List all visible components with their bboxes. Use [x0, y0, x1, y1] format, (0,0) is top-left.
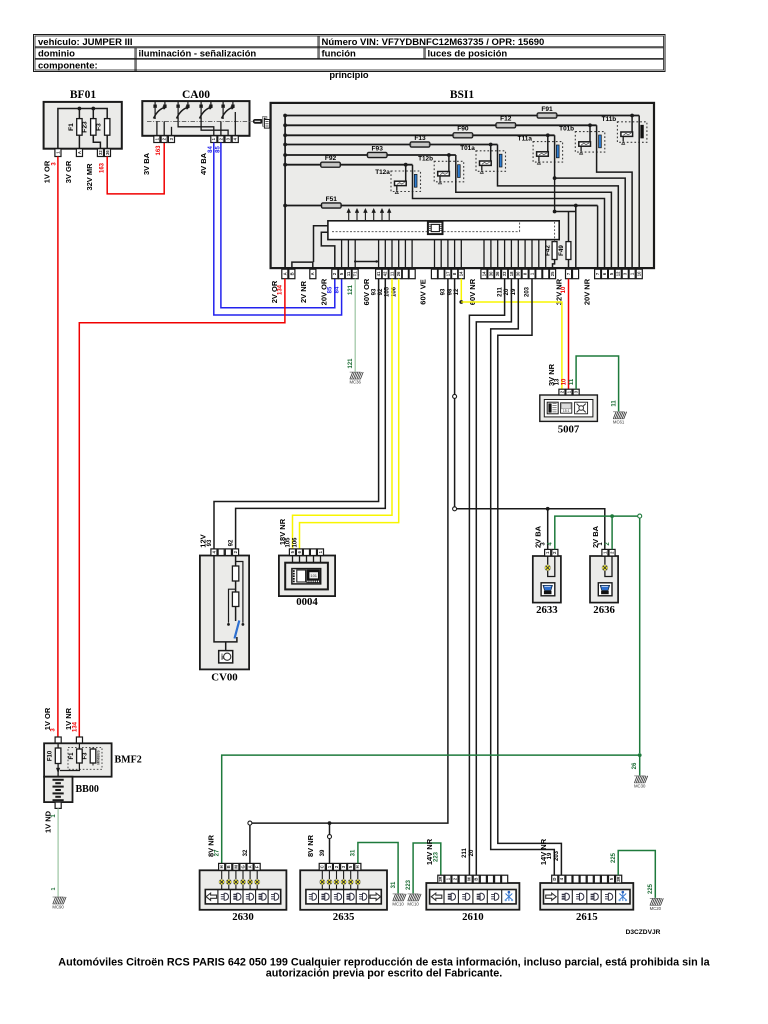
svg-text:163: 163: [100, 162, 106, 173]
svg-text:1: 1: [51, 887, 57, 890]
svg-text:10: 10: [637, 271, 642, 276]
svg-text:T11a: T11a: [518, 136, 533, 143]
svg-text:18: 18: [509, 271, 514, 276]
svg-text:105: 105: [285, 537, 291, 548]
svg-text:14: 14: [459, 271, 464, 276]
svg-text:60V NR: 60V NR: [468, 278, 477, 305]
svg-text:F1: F1: [69, 752, 75, 760]
svg-text:M: M: [467, 877, 472, 881]
svg-text:2630: 2630: [232, 911, 254, 923]
svg-text:101: 101: [310, 573, 317, 578]
svg-text:60V OR: 60V OR: [362, 278, 371, 305]
svg-text:1V NR: 1V NR: [64, 707, 73, 730]
svg-text:26: 26: [396, 271, 401, 276]
svg-text:3R: 3R: [616, 876, 621, 881]
svg-text:30: 30: [488, 271, 493, 276]
svg-text:T12a: T12a: [375, 169, 390, 176]
svg-text:3V GR: 3V GR: [64, 160, 73, 183]
svg-text:12: 12: [616, 271, 621, 276]
svg-text:B: B: [226, 865, 231, 868]
svg-text:42: 42: [383, 271, 388, 276]
svg-text:223: 223: [434, 851, 440, 862]
svg-text:BMF2: BMF2: [115, 755, 142, 766]
svg-text:93: 93: [371, 288, 377, 295]
svg-text:225: 225: [648, 883, 654, 894]
svg-text:T1: T1: [353, 271, 358, 277]
svg-text:T01a: T01a: [460, 145, 475, 152]
svg-text:26: 26: [632, 762, 638, 769]
svg-text:Número VIN: VF7YDBNFC12M63735: Número VIN: VF7YDBNFC12M63735 / OPR: 156…: [322, 37, 545, 48]
svg-text:39: 39: [320, 849, 326, 856]
svg-text:3R: 3R: [438, 876, 443, 881]
svg-text:92: 92: [228, 539, 234, 546]
svg-text:36: 36: [495, 271, 500, 276]
svg-text:13: 13: [555, 378, 561, 385]
svg-text:principio: principio: [329, 70, 369, 80]
svg-text:11: 11: [611, 400, 617, 407]
svg-text:11: 11: [346, 271, 351, 276]
svg-text:F13: F13: [414, 135, 426, 142]
svg-text:31: 31: [391, 881, 397, 888]
svg-text:F91: F91: [541, 106, 553, 113]
svg-text:33: 33: [502, 271, 507, 276]
svg-text:D: D: [552, 878, 557, 881]
svg-text:2633: 2633: [536, 604, 558, 616]
svg-text:MC30: MC30: [634, 784, 646, 789]
svg-text:121: 121: [348, 358, 354, 369]
svg-text:2615: 2615: [576, 911, 598, 923]
svg-text:F10: F10: [48, 750, 54, 761]
svg-text:20V NR: 20V NR: [582, 278, 591, 305]
svg-text:203: 203: [525, 286, 531, 297]
svg-text:F23: F23: [82, 121, 89, 133]
svg-text:134: 134: [73, 721, 79, 732]
svg-text:121: 121: [348, 284, 354, 295]
svg-text:A: A: [282, 272, 287, 275]
svg-text:vehículo: JUMPER III: vehículo: JUMPER III: [38, 37, 133, 48]
svg-text:componente:: componente:: [38, 61, 98, 72]
svg-text:A: A: [77, 151, 82, 154]
svg-text:F3: F3: [83, 752, 89, 760]
svg-text:5007: 5007: [558, 424, 580, 436]
svg-text:1V OR: 1V OR: [43, 707, 52, 730]
svg-text:85: 85: [328, 286, 334, 293]
svg-text:2610: 2610: [462, 911, 484, 923]
svg-text:MC10: MC10: [407, 902, 419, 907]
svg-text:F92: F92: [325, 155, 337, 162]
svg-text:F12: F12: [500, 116, 512, 123]
svg-text:14V NR: 14V NR: [539, 838, 548, 865]
svg-text:Automóviles Citroën RCS PARIS: Automóviles Citroën RCS PARIS 642 050 19…: [58, 956, 710, 968]
svg-text:BB00: BB00: [76, 784, 99, 795]
svg-text:F: F: [255, 865, 260, 868]
svg-text:31: 31: [351, 849, 357, 856]
svg-text:32V MR: 32V MR: [85, 163, 94, 191]
svg-text:D3CZDVJR: D3CZDVJR: [626, 929, 661, 936]
svg-text:36: 36: [105, 150, 110, 155]
svg-text:H: H: [219, 865, 224, 868]
svg-text:1V ND: 1V ND: [43, 810, 52, 833]
svg-text:4V BA: 4V BA: [199, 152, 208, 175]
svg-text:MC36: MC36: [349, 380, 361, 385]
svg-text:F90: F90: [457, 126, 469, 133]
svg-text:10: 10: [561, 286, 567, 293]
svg-text:M: M: [233, 865, 238, 869]
svg-text:G: G: [240, 865, 245, 868]
svg-text:F51: F51: [326, 196, 338, 203]
svg-text:C: C: [320, 865, 325, 868]
svg-text:225: 225: [611, 852, 617, 863]
svg-text:14V NR: 14V NR: [425, 838, 434, 865]
svg-text:A: A: [248, 865, 253, 868]
svg-text:B: B: [474, 878, 479, 881]
svg-text:134: 134: [278, 284, 284, 295]
svg-text:84: 84: [334, 286, 340, 293]
svg-text:211: 211: [462, 848, 468, 858]
svg-text:F93: F93: [372, 145, 384, 152]
svg-text:14: 14: [481, 271, 486, 276]
svg-text:2V NR: 2V NR: [299, 280, 308, 303]
svg-text:MC20: MC20: [650, 906, 662, 911]
svg-text:19: 19: [547, 852, 553, 859]
svg-text:T12b: T12b: [418, 155, 433, 162]
svg-text:MC90: MC90: [52, 905, 64, 910]
svg-text:F1: F1: [68, 123, 75, 131]
svg-text:27: 27: [214, 849, 220, 856]
svg-text:MINIBUS: MINIBUS: [97, 750, 101, 765]
svg-text:F3: F3: [96, 123, 103, 131]
svg-text:B: B: [289, 272, 294, 275]
svg-text:30: 30: [516, 271, 521, 276]
svg-text:CV00: CV00: [211, 672, 237, 684]
svg-text:función: función: [322, 49, 356, 60]
svg-text:93: 93: [207, 539, 213, 546]
svg-text:A: A: [310, 272, 315, 275]
svg-text:25: 25: [550, 271, 555, 276]
svg-text:15:1: 15:1: [563, 409, 570, 413]
svg-text:10: 10: [562, 378, 568, 385]
svg-text:dominio: dominio: [38, 49, 75, 60]
svg-text:BF01: BF01: [70, 89, 96, 101]
svg-text:MC61: MC61: [613, 419, 625, 424]
svg-text:20: 20: [469, 849, 475, 856]
svg-text:3V BA: 3V BA: [142, 152, 151, 175]
svg-text:203: 203: [554, 850, 560, 861]
svg-text:CA00: CA00: [182, 89, 210, 101]
svg-text:1V OR: 1V OR: [43, 160, 52, 183]
svg-text:2636: 2636: [593, 604, 615, 616]
svg-text:H: H: [355, 865, 360, 868]
svg-text:211: 211: [497, 287, 503, 297]
svg-text:2635: 2635: [333, 911, 355, 923]
svg-text:106: 106: [292, 537, 298, 548]
svg-text:BSI1: BSI1: [450, 89, 475, 101]
svg-text:11: 11: [569, 378, 575, 385]
svg-text:0004: 0004: [296, 596, 318, 608]
svg-text:41: 41: [376, 271, 381, 276]
svg-text:T01b: T01b: [559, 126, 574, 133]
svg-text:iluminación - señalización: iluminación - señalización: [139, 49, 257, 60]
svg-text:MC10: MC10: [392, 902, 404, 907]
svg-text:8V NR: 8V NR: [306, 834, 315, 857]
svg-text:F49: F49: [558, 245, 565, 256]
svg-text:163: 163: [156, 145, 162, 156]
svg-text:11: 11: [389, 271, 394, 276]
svg-text:autorización previa por escrit: autorización previa por escrito del Fabr…: [266, 968, 502, 980]
svg-text:32: 32: [98, 150, 103, 155]
svg-text:32: 32: [243, 849, 249, 856]
svg-text:luces de posición: luces de posición: [428, 49, 508, 60]
svg-text:93: 93: [441, 288, 447, 295]
svg-text:60V VE: 60V VE: [418, 279, 427, 304]
svg-text:T11b: T11b: [602, 116, 617, 123]
svg-text:17: 17: [445, 271, 450, 276]
svg-text:223: 223: [406, 879, 412, 890]
